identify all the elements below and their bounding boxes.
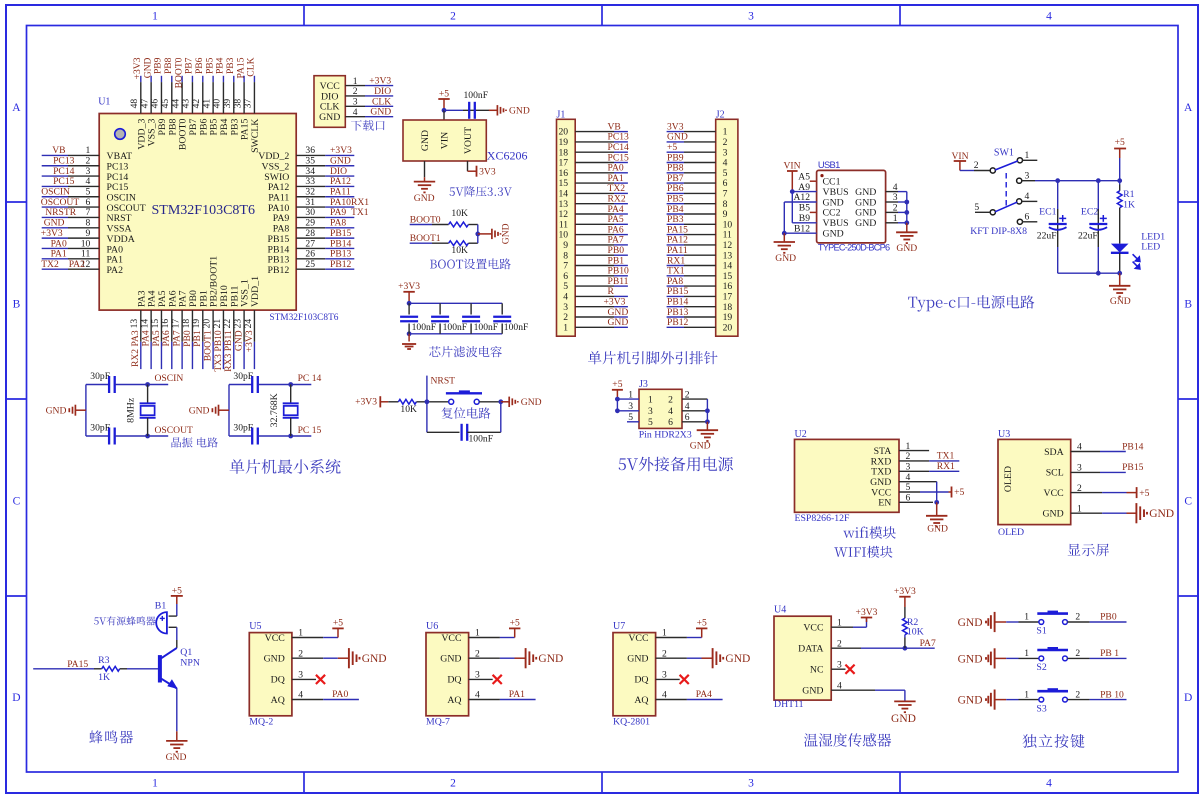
svg-text:100nF: 100nF [464,90,489,101]
svg-text:VCC: VCC [265,633,285,644]
svg-text:+5: +5 [333,618,343,629]
svg-text:S3: S3 [1036,703,1046,714]
svg-text:+3V3: +3V3 [398,281,420,292]
svg-text:+3V3: +3V3 [856,607,878,618]
svg-text:AQ: AQ [447,695,461,706]
svg-text:TYPEC-250D-BCP6: TYPEC-250D-BCP6 [818,243,890,253]
svg-text:U6: U6 [426,621,438,632]
svg-text:2: 2 [450,777,456,789]
svg-text:U7: U7 [613,621,625,632]
svg-text:2: 2 [1075,648,1080,659]
svg-text:LED: LED [1141,242,1160,253]
svg-text:B: B [13,299,21,311]
svg-text:PC 14: PC 14 [298,373,322,384]
svg-text:GND: GND [870,477,891,488]
svg-text:AQ: AQ [271,695,285,706]
svg-text:GND: GND [189,406,210,417]
svg-text:100nF: 100nF [443,322,468,333]
svg-text:GND: GND [775,253,796,264]
svg-text:SWCLK: SWCLK [250,119,261,153]
svg-text:BOOT0: BOOT0 [410,214,441,225]
svg-text:VCC: VCC [320,81,340,92]
svg-text:EC1: EC1 [1039,206,1057,217]
svg-text:GND: GND [802,686,823,697]
svg-text:DATA: DATA [798,644,823,655]
svg-text:20: 20 [723,322,733,333]
svg-text:TX2: TX2 [41,259,59,270]
svg-text:100nF: 100nF [412,322,437,333]
svg-text:J1: J1 [557,109,566,120]
svg-text:GND: GND [823,229,844,240]
svg-text:30pF: 30pF [233,371,253,382]
svg-text:BOOT1: BOOT1 [410,233,441,244]
svg-text:1: 1 [152,10,158,22]
svg-text:CC1: CC1 [823,177,841,188]
svg-text:PA2: PA2 [69,259,85,270]
svg-text:2: 2 [1075,612,1080,623]
svg-text:GND: GND [370,107,391,118]
svg-text:AQ: AQ [634,695,648,706]
svg-text:PA1: PA1 [107,255,124,266]
svg-text:CLK: CLK [246,57,257,76]
svg-text:U2: U2 [795,429,807,440]
svg-text:S1: S1 [1036,626,1046,637]
svg-text:30pF: 30pF [90,423,110,434]
svg-text:VBUS: VBUS [823,218,849,229]
svg-text:B: B [1184,299,1192,311]
svg-text:GND: GND [1110,296,1131,307]
svg-text:VCC: VCC [1044,488,1064,499]
svg-text:+3V3: +3V3 [244,330,255,352]
svg-text:GND: GND [608,317,629,328]
svg-text:10K: 10K [451,245,468,256]
svg-text:35: 35 [305,156,315,167]
svg-text:PB12: PB12 [667,317,689,328]
svg-text:GND: GND [855,187,876,198]
svg-text:3: 3 [893,192,898,203]
svg-text:B1: B1 [155,600,167,611]
svg-text:1: 1 [1025,150,1030,161]
svg-text:GND: GND [725,653,750,665]
svg-text:4: 4 [1046,10,1052,22]
svg-text:C: C [1184,496,1192,508]
svg-text:NRSTR: NRSTR [45,207,77,218]
svg-text:S2: S2 [1036,662,1046,673]
svg-text:GND: GND [46,406,67,417]
svg-text:GND: GND [501,223,512,244]
svg-text:PA2: PA2 [107,265,124,276]
svg-text:10K: 10K [451,208,468,219]
svg-text:GND: GND [958,695,983,707]
svg-text:1: 1 [353,76,358,87]
svg-text:GND: GND [420,130,431,151]
svg-text:EC2: EC2 [1081,206,1099,217]
svg-text:GND: GND [330,156,351,167]
svg-text:2: 2 [1075,689,1080,700]
svg-text:DQ: DQ [447,675,461,686]
svg-text:OLED: OLED [998,527,1024,538]
svg-text:2: 2 [974,160,979,171]
svg-text:A: A [12,102,21,114]
svg-text:GND: GND [958,653,983,665]
svg-text:4: 4 [1046,777,1052,789]
svg-text:CC2: CC2 [823,208,841,219]
svg-text:VIN: VIN [439,132,450,149]
svg-text:PC13: PC13 [53,156,75,167]
svg-text:RX1: RX1 [937,461,955,472]
svg-text:DQ: DQ [634,675,648,686]
svg-text:30pF: 30pF [233,423,253,434]
svg-text:PB13: PB13 [268,255,290,266]
svg-text:+5: +5 [612,379,622,390]
svg-text:VBUS: VBUS [823,187,849,198]
svg-text:1: 1 [893,213,898,224]
svg-text:U3: U3 [998,429,1010,440]
svg-text:3: 3 [353,97,358,108]
svg-text:+5: +5 [1139,488,1149,499]
svg-text:3: 3 [648,406,653,417]
svg-text:GND: GND [896,243,917,254]
svg-text:GND: GND [958,617,983,629]
svg-text:6: 6 [1025,212,1030,223]
svg-text:SCL: SCL [1046,468,1064,479]
svg-text:J3: J3 [639,379,648,390]
svg-text:1: 1 [563,322,568,333]
svg-text:1K: 1K [1123,200,1135,211]
svg-text:GND: GND [362,653,387,665]
svg-text:GND: GND [891,713,916,725]
svg-text:VSS_2: VSS_2 [262,162,290,173]
svg-text:PA9: PA9 [273,213,290,224]
svg-text:NC: NC [810,665,824,676]
svg-text:PA1: PA1 [509,689,525,700]
svg-text:STM32F103C8T6: STM32F103C8T6 [269,313,338,323]
svg-text:ESP8266-12F: ESP8266-12F [795,513,851,524]
svg-text:TX1: TX1 [937,451,955,462]
svg-text:100nF: 100nF [504,322,529,333]
svg-text:1: 1 [1024,612,1029,623]
svg-text:VIN: VIN [783,161,800,172]
svg-text:R1: R1 [1123,189,1135,200]
svg-text:SW1: SW1 [994,147,1014,158]
svg-text:+3V3: +3V3 [355,397,377,408]
svg-text:PB 10: PB 10 [1100,689,1124,700]
svg-text:32.768K: 32.768K [269,393,280,427]
svg-text:34: 34 [305,166,315,177]
svg-text:CLK: CLK [372,96,391,107]
svg-text:5: 5 [648,417,653,428]
svg-text:2: 2 [86,156,91,167]
svg-text:PB14: PB14 [1122,441,1144,452]
svg-text:NRST: NRST [431,376,456,387]
svg-text:VCC: VCC [803,623,823,634]
svg-text:U1: U1 [98,96,110,107]
svg-text:Pin HDR2X3: Pin HDR2X3 [639,430,692,441]
svg-text:VDD_1: VDD_1 [250,276,261,307]
svg-text:VCC: VCC [871,487,891,498]
svg-text:4: 4 [353,107,358,118]
svg-text:U5: U5 [249,621,261,632]
svg-text:VCC: VCC [628,633,648,644]
svg-text:DIO: DIO [330,166,347,177]
svg-text:4: 4 [1025,191,1030,202]
svg-text:1: 1 [648,394,653,405]
svg-text:11: 11 [81,249,90,260]
svg-text:PB12: PB12 [268,265,290,276]
svg-text:+5: +5 [172,585,182,596]
svg-text:+5: +5 [697,618,707,629]
svg-text:DHT11: DHT11 [774,699,804,710]
svg-text:PA7: PA7 [920,638,936,649]
svg-text:MQ-2: MQ-2 [249,717,273,728]
svg-text:+3V3: +3V3 [894,586,916,597]
svg-text:4: 4 [893,182,898,193]
svg-text:SWIO: SWIO [264,172,289,183]
svg-text:GND: GND [538,653,563,665]
svg-text:Q1: Q1 [180,647,192,658]
svg-text:PC 15: PC 15 [298,425,322,436]
svg-text:1: 1 [152,777,158,789]
svg-text:+5: +5 [439,88,449,99]
svg-text:GND: GND [627,654,648,665]
svg-text:PB15: PB15 [1122,462,1144,473]
svg-text:RXD: RXD [871,456,892,467]
svg-text:100nF: 100nF [469,434,494,445]
svg-text:GND: GND [855,208,876,219]
svg-text:25: 25 [305,259,315,270]
svg-text:PC14: PC14 [53,166,75,177]
svg-text:OLED: OLED [1003,466,1014,492]
svg-text:VOUT: VOUT [463,127,474,154]
svg-text:GND: GND [855,218,876,229]
svg-text:PB13: PB13 [330,249,352,260]
svg-text:+5: +5 [510,618,520,629]
svg-text:GND: GND [166,752,187,763]
svg-text:100nF: 100nF [474,322,499,333]
svg-text:GND: GND [855,197,876,208]
svg-text:DIO: DIO [374,86,391,97]
svg-text:PB12: PB12 [330,259,352,270]
svg-text:10K: 10K [907,627,924,638]
svg-text:PC14: PC14 [107,172,129,183]
svg-text:10K: 10K [400,404,417,415]
svg-text:3V3: 3V3 [479,166,496,177]
svg-text:GND: GND [690,440,711,451]
svg-text:A5: A5 [798,171,810,182]
svg-text:VCC: VCC [441,633,461,644]
svg-text:2: 2 [893,203,898,214]
svg-text:PB0: PB0 [1100,612,1117,623]
svg-text:37: 37 [243,99,254,109]
svg-text:GND: GND [521,397,542,408]
svg-text:1K: 1K [98,672,110,683]
svg-text:GND: GND [264,654,285,665]
svg-text:STA: STA [874,446,892,457]
svg-text:24: 24 [243,319,254,329]
svg-text:1: 1 [1024,689,1029,700]
svg-text:PC13: PC13 [107,162,129,173]
svg-text:GND: GND [1042,509,1063,520]
svg-text:OSCOUT: OSCOUT [155,425,194,436]
svg-text:PA15: PA15 [67,659,88,670]
svg-text:3: 3 [748,777,754,789]
svg-text:KFT DIP-8X8: KFT DIP-8X8 [970,226,1027,237]
svg-text:C: C [13,496,21,508]
svg-text:+5: +5 [1115,137,1125,148]
svg-text:+3V3: +3V3 [369,76,391,87]
svg-text:D: D [1184,692,1192,704]
svg-text:MQ-7: MQ-7 [426,717,450,728]
svg-text:KQ-2801: KQ-2801 [613,717,650,728]
svg-text:22uF: 22uF [1078,230,1098,241]
svg-text:PA4: PA4 [696,689,712,700]
svg-text:30: 30 [305,207,315,218]
svg-text:B5: B5 [799,203,810,214]
svg-text:GND: GND [927,524,948,535]
svg-text:STM32F103C8T6: STM32F103C8T6 [152,203,255,218]
svg-text:DIO: DIO [321,91,338,102]
svg-text:+5: +5 [954,487,964,498]
svg-text:3: 3 [1025,171,1030,182]
svg-text:OSCIN: OSCIN [155,373,184,384]
svg-text:U4: U4 [774,605,786,616]
svg-text:3: 3 [86,166,91,177]
svg-text:TXD: TXD [871,467,891,478]
svg-text:GND: GND [440,654,461,665]
svg-text:6: 6 [668,417,673,428]
svg-text:GND: GND [414,193,435,204]
svg-text:1: 1 [1024,648,1029,659]
svg-text:CLK: CLK [320,102,340,113]
svg-text:DQ: DQ [271,675,285,686]
svg-text:PA1: PA1 [51,249,67,260]
svg-text:EN: EN [878,498,891,509]
svg-text:NPN: NPN [180,658,200,669]
svg-text:8MHz: 8MHz [126,397,137,423]
svg-text:R3: R3 [98,655,110,666]
svg-text:GND: GND [509,106,530,117]
svg-text:26: 26 [305,249,315,260]
svg-text:5: 5 [974,202,979,213]
svg-text:J2: J2 [716,109,725,120]
svg-text:2: 2 [668,394,673,405]
svg-text:GND: GND [319,112,340,123]
svg-text:SDA: SDA [1044,447,1064,458]
svg-text:PA9 TX1: PA9 TX1 [330,207,369,218]
svg-text:22uF: 22uF [1037,230,1057,241]
svg-text:7: 7 [86,207,91,218]
svg-text:GND: GND [1149,508,1174,520]
svg-text:GND: GND [823,197,844,208]
svg-text:NRST: NRST [107,213,132,224]
svg-text:A: A [1184,102,1193,114]
svg-text:2: 2 [353,86,358,97]
svg-text:D: D [12,692,20,704]
svg-text:XC6206: XC6206 [487,149,528,163]
svg-text:2: 2 [450,10,456,22]
svg-text:PB 1: PB 1 [1100,648,1119,659]
svg-text:USB1: USB1 [818,159,840,170]
svg-text:PA0: PA0 [332,689,348,700]
svg-text:4: 4 [668,406,673,417]
svg-text:3: 3 [748,10,754,22]
svg-text:30pF: 30pF [90,371,110,382]
